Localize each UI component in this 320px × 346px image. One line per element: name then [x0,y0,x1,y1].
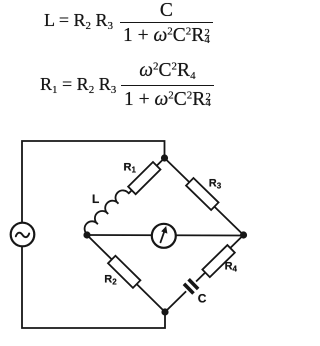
svg-text:R1: R1 [124,162,137,175]
wire: bottom feed from source to bottom bridge node [22,247,165,328]
node: bottom bridge vertex [161,308,168,315]
wire: detector branch [87,234,244,237]
equation 2: R1 = R2 R3 (w^2C^2R4)/(1+w^2C^2R4^2) [40,75,116,93]
wire: arm top-left upper segment (through R1) [129,158,165,193]
resistor R3 body [186,178,218,210]
wire: arm bottom-left (R2) [87,235,165,312]
wire: arm top-right (R3) [165,158,244,235]
svg-text:R4: R4 [225,261,238,274]
resistor R4 body [202,245,234,277]
svg-text:L: L [92,192,99,206]
resistor R1 body [128,162,160,194]
wire: arm bottom-right (C + R4) [165,235,244,312]
inductor L coil [85,190,129,234]
svg-text:R3: R3 [209,178,222,191]
node: right bridge vertex [240,231,247,238]
node: top bridge vertex [161,154,168,161]
svg-text:C: C [198,292,207,306]
equation 1: L = R2 R3 C/(1+w^2C^2R4^2) [44,11,113,29]
capacitor C plates [181,277,201,297]
AC source [11,223,35,247]
svg-text:R2: R2 [104,273,117,286]
node: left bridge vertex [83,231,90,238]
wire: top feed from source to top bridge node [22,141,165,222]
galvanometer [152,224,176,248]
resistor R2 body [108,256,140,288]
